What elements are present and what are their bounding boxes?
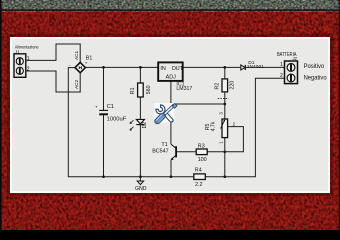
wire IC1 OUT to D1 <box>183 66 241 68</box>
dashed mark above ADJ node <box>218 98 229 100</box>
resistor R4 2.2 <box>194 167 206 187</box>
black left edge <box>0 0 2 230</box>
svg-text:220: 220 <box>230 81 236 90</box>
grey static band top <box>0 0 340 10</box>
svg-text:OUT: OUT <box>172 66 184 72</box>
svg-text:D2: D2 <box>142 122 148 129</box>
ground symbol GND <box>135 177 147 192</box>
svg-text:1: 1 <box>27 56 30 62</box>
svg-text:R4: R4 <box>195 167 202 173</box>
svg-text:2: 2 <box>280 73 283 79</box>
wire J1 pin2 to bridge AC2 <box>26 71 80 92</box>
svg-text:IN: IN <box>160 66 165 72</box>
wire LED D2 cathode to ground rail <box>139 125 141 177</box>
wire R1 top lead <box>139 67 141 83</box>
svg-text:560: 560 <box>146 85 152 94</box>
resistor R3 100 <box>196 144 207 164</box>
wire IC1 ADJ down to T1 collector <box>170 81 172 144</box>
svg-text:+: + <box>85 61 88 66</box>
LED D2 <box>130 119 148 130</box>
tools icon overlay <box>154 103 177 123</box>
svg-text:C1: C1 <box>107 104 114 110</box>
svg-text:Positivo: Positivo <box>304 63 325 70</box>
dark right edge <box>339 0 340 230</box>
resistor R2 220 <box>215 79 236 92</box>
wrench <box>156 105 172 121</box>
svg-text:1: 1 <box>280 62 283 68</box>
svg-text:4.7k: 4.7k <box>210 121 216 131</box>
svg-text:1N4001: 1N4001 <box>247 64 264 70</box>
wire R1 bottom to LED D2 <box>139 97 141 119</box>
svg-text:Negativo: Negativo <box>304 75 328 82</box>
svg-text:GND: GND <box>135 186 147 192</box>
svg-text:R3: R3 <box>198 144 205 150</box>
dark separator row under grey band <box>0 9 340 11</box>
white schematic panel <box>10 37 330 193</box>
svg-text:+: + <box>95 106 98 111</box>
wire junction column R3 to R4 node <box>224 152 226 177</box>
wire R3 right to junction <box>207 151 225 153</box>
svg-text:R1: R1 <box>130 87 136 94</box>
svg-text:BC547: BC547 <box>152 149 168 155</box>
connector J1 Alimentazione <box>14 45 39 78</box>
connector J2 BATTERIA <box>277 52 327 84</box>
diode D1 1N4001 <box>241 60 264 70</box>
shadow around panel <box>8 35 332 194</box>
wire R2 top lead <box>224 67 226 79</box>
svg-text:J2: J2 <box>291 56 297 61</box>
svg-text:ADJ: ADJ <box>166 75 176 81</box>
wire T1 emitter to ground rail <box>170 160 172 177</box>
bridge rectifier B1 <box>69 50 92 89</box>
svg-text:AC2: AC2 <box>74 79 79 89</box>
wire ground rail east of R4 up to J2 pin2 <box>205 78 284 176</box>
resistor R1 560 <box>130 83 152 97</box>
svg-text:AC1: AC1 <box>74 50 79 60</box>
svg-text:1000uF: 1000uF <box>107 117 127 123</box>
wire T1 base to R3 <box>176 151 196 153</box>
capacitor C1 1000uF <box>95 104 127 122</box>
wire R2 bottom to R5 top <box>224 92 226 119</box>
wire R5 bottom lead <box>224 138 226 152</box>
wire D1 cathode to J2 pin1 <box>246 66 285 68</box>
svg-text:R2: R2 <box>215 83 221 90</box>
wire R5 wiper loop <box>225 127 244 152</box>
wire bridge minus down to ground rail <box>68 68 194 177</box>
wire J1 pin1 to bridge AC1 <box>26 44 80 63</box>
svg-text:2.2: 2.2 <box>195 182 203 188</box>
wire top rail bridge plus to IC1 IN <box>85 66 158 68</box>
junction dots <box>102 66 226 178</box>
svg-text:2: 2 <box>27 66 30 72</box>
svg-text:LM317: LM317 <box>176 86 192 92</box>
wire ADJ branch to R2 bottom <box>171 103 225 105</box>
transistor T1 BC547 <box>152 142 176 160</box>
wire C1 leads <box>103 67 105 176</box>
svg-text:100: 100 <box>198 157 207 163</box>
trimmer R5 4.7k <box>205 112 236 144</box>
svg-text:T1: T1 <box>161 142 167 148</box>
screwdriver <box>157 104 178 123</box>
regulator IC1 LM317 <box>158 62 192 92</box>
